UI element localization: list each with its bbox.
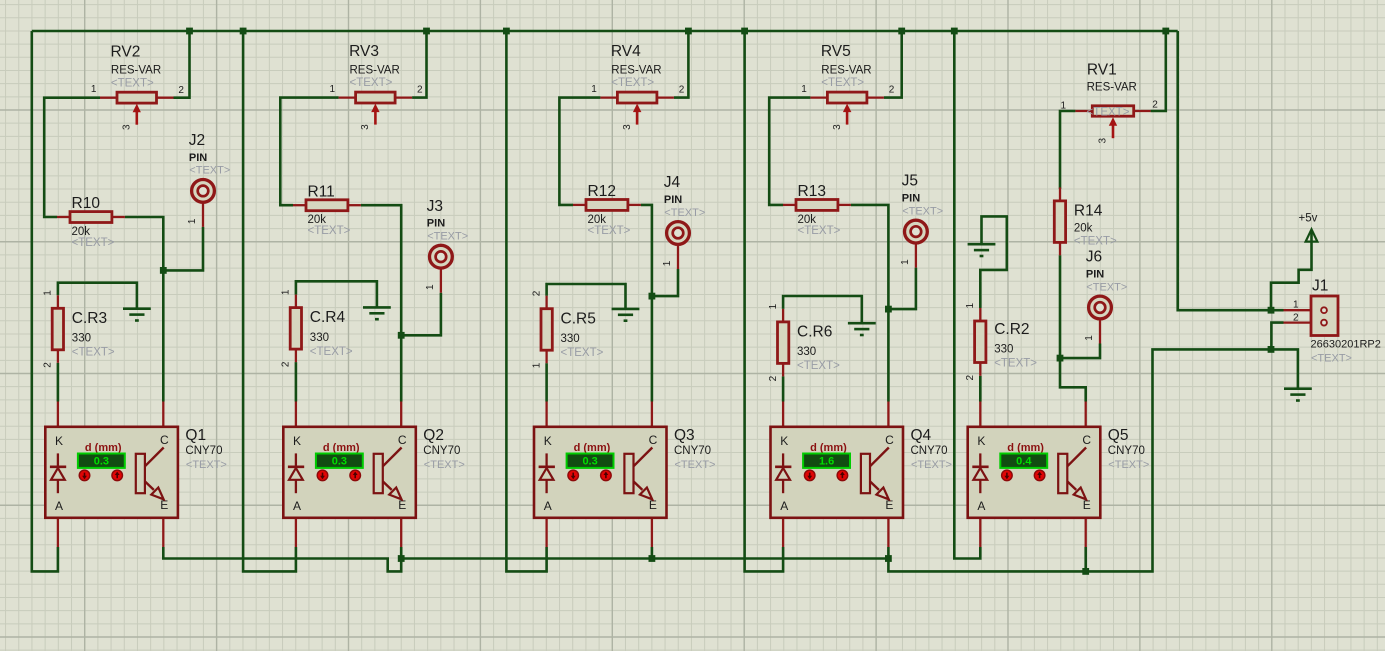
svg-text:RES-VAR: RES-VAR [350, 65, 400, 77]
svg-text:3: 3 [1098, 137, 1109, 143]
svg-text:<TEXT>: <TEXT> [186, 459, 227, 471]
svg-text:1: 1 [801, 84, 807, 95]
svg-text:330: 330 [994, 344, 1013, 356]
svg-text:d (mm): d (mm) [323, 442, 360, 454]
svg-text:Q5: Q5 [1108, 427, 1129, 444]
svg-text:2: 2 [768, 375, 779, 381]
svg-text:<TEXT>: <TEXT> [1311, 353, 1352, 365]
svg-text:330: 330 [797, 346, 816, 358]
svg-text:d (mm): d (mm) [85, 442, 122, 454]
svg-text:1: 1 [91, 84, 97, 95]
svg-text:PIN: PIN [664, 194, 682, 206]
svg-text:3: 3 [622, 124, 633, 130]
svg-text:2: 2 [417, 85, 423, 96]
svg-text:K: K [977, 434, 985, 448]
svg-text:R12: R12 [588, 183, 616, 200]
svg-text:CNY70: CNY70 [674, 445, 711, 457]
svg-text:1: 1 [1293, 300, 1299, 311]
svg-text:Q3: Q3 [674, 427, 695, 444]
svg-text:3: 3 [360, 124, 371, 130]
svg-text:PIN: PIN [1086, 268, 1104, 280]
svg-text:<TEXT>: <TEXT> [902, 205, 943, 217]
svg-text:0.3: 0.3 [332, 456, 347, 468]
svg-text:RV5: RV5 [821, 43, 851, 60]
svg-text:2: 2 [965, 374, 976, 380]
svg-text:2: 2 [43, 362, 54, 368]
svg-text:RES-VAR: RES-VAR [821, 65, 871, 77]
svg-text:K: K [293, 434, 301, 448]
svg-text:1: 1 [662, 260, 673, 266]
svg-text:RES-VAR: RES-VAR [611, 65, 661, 77]
svg-text:<TEXT>: <TEXT> [798, 225, 841, 237]
svg-text:R10: R10 [72, 195, 101, 212]
svg-text:C.R6: C.R6 [797, 324, 832, 341]
svg-text:d (mm): d (mm) [574, 442, 611, 454]
svg-text:<TEXT>: <TEXT> [561, 347, 604, 359]
svg-text:R11: R11 [308, 183, 335, 200]
svg-text:1: 1 [1084, 335, 1095, 341]
svg-text:A: A [977, 499, 985, 513]
svg-text:<TEXT>: <TEXT> [189, 165, 230, 177]
svg-text:<TEXT>: <TEXT> [797, 360, 840, 372]
svg-text:2: 2 [889, 85, 895, 96]
svg-text:2: 2 [178, 85, 184, 96]
svg-text:<TEXT>: <TEXT> [1086, 281, 1127, 293]
svg-text:<TEXT>: <TEXT> [424, 459, 465, 471]
svg-text:K: K [544, 434, 552, 448]
svg-text:<TEXT>: <TEXT> [611, 77, 654, 89]
svg-text:A: A [544, 499, 552, 513]
svg-text:0.3: 0.3 [582, 456, 597, 468]
svg-text:0.3: 0.3 [94, 456, 109, 468]
svg-text:1: 1 [281, 289, 292, 295]
svg-text:J6: J6 [1086, 249, 1102, 266]
svg-text:C: C [160, 433, 169, 447]
svg-text:J3: J3 [427, 198, 443, 215]
svg-text:RV2: RV2 [111, 43, 141, 60]
svg-text:<TEXT>: <TEXT> [821, 77, 864, 89]
svg-text:C.R2: C.R2 [994, 321, 1029, 338]
svg-text:3: 3 [121, 124, 132, 130]
svg-text:C.R5: C.R5 [561, 310, 596, 327]
svg-text:K: K [55, 434, 63, 448]
svg-text:A: A [293, 499, 301, 513]
svg-text:2: 2 [679, 85, 685, 96]
svg-text:CNY70: CNY70 [423, 445, 460, 457]
svg-text:C: C [1082, 433, 1091, 447]
svg-text:Q1: Q1 [185, 427, 206, 444]
svg-text:R13: R13 [798, 183, 826, 200]
svg-text:330: 330 [72, 333, 91, 345]
svg-text:3: 3 [832, 124, 843, 130]
svg-text:<TEXT>: <TEXT> [427, 231, 468, 243]
svg-text:<TEXT>: <TEXT> [1087, 106, 1130, 118]
svg-text:<TEXT>: <TEXT> [1108, 459, 1149, 471]
svg-text:K: K [780, 434, 788, 448]
svg-text:Q2: Q2 [423, 427, 444, 444]
svg-text:1: 1 [531, 362, 542, 368]
svg-text:2: 2 [1293, 313, 1299, 324]
svg-text:1.6: 1.6 [819, 456, 834, 468]
svg-text:1: 1 [591, 84, 597, 95]
svg-text:RV3: RV3 [349, 43, 379, 60]
svg-text:C.R4: C.R4 [310, 309, 346, 326]
svg-text:A: A [780, 499, 788, 513]
svg-text:1: 1 [43, 290, 54, 296]
svg-text:1: 1 [329, 84, 335, 95]
svg-text:CNY70: CNY70 [185, 445, 222, 457]
svg-text:<TEXT>: <TEXT> [1074, 236, 1117, 248]
svg-text:C: C [885, 433, 894, 447]
svg-text:2: 2 [531, 290, 542, 296]
svg-text:<TEXT>: <TEXT> [664, 207, 705, 219]
svg-text:<TEXT>: <TEXT> [308, 225, 351, 237]
svg-text:C: C [649, 433, 658, 447]
svg-text:d (mm): d (mm) [1007, 442, 1044, 454]
svg-text:CNY70: CNY70 [1108, 445, 1145, 457]
svg-text:26630201RP2: 26630201RP2 [1311, 339, 1381, 351]
svg-text:<TEXT>: <TEXT> [675, 459, 716, 471]
svg-text:1: 1 [900, 259, 911, 265]
svg-text:RV1: RV1 [1087, 62, 1117, 79]
svg-text:C.R3: C.R3 [72, 310, 107, 327]
svg-text:1: 1 [187, 218, 198, 224]
svg-text:RV4: RV4 [611, 43, 641, 60]
svg-text:R14: R14 [1074, 203, 1103, 220]
svg-text:C: C [398, 433, 407, 447]
svg-text:<TEXT>: <TEXT> [72, 347, 115, 359]
svg-text:PIN: PIN [427, 218, 445, 230]
svg-text:J2: J2 [189, 132, 205, 149]
svg-text:RES-VAR: RES-VAR [111, 65, 161, 77]
svg-text:1: 1 [768, 303, 779, 309]
svg-text:RES-VAR: RES-VAR [1087, 81, 1137, 93]
svg-text:PIN: PIN [189, 152, 207, 164]
svg-text:Q4: Q4 [911, 427, 932, 444]
svg-text:20k: 20k [1074, 223, 1093, 235]
svg-text:<TEXT>: <TEXT> [588, 225, 631, 237]
svg-text:0.4: 0.4 [1016, 456, 1032, 468]
svg-text:<TEXT>: <TEXT> [111, 77, 154, 89]
svg-text:J1: J1 [1312, 278, 1328, 295]
svg-text:2: 2 [1152, 100, 1158, 111]
svg-text:2: 2 [281, 361, 292, 367]
svg-text:<TEXT>: <TEXT> [911, 459, 952, 471]
svg-text:<TEXT>: <TEXT> [72, 237, 115, 249]
svg-text:1: 1 [425, 284, 436, 290]
svg-text:<TEXT>: <TEXT> [310, 346, 353, 358]
svg-text:+5v: +5v [1299, 212, 1318, 224]
svg-text:J4: J4 [664, 174, 681, 191]
svg-text:<TEXT>: <TEXT> [994, 358, 1037, 370]
svg-text:330: 330 [561, 333, 580, 345]
svg-text:330: 330 [310, 332, 329, 344]
svg-text:1: 1 [965, 302, 976, 308]
svg-text:A: A [55, 499, 63, 513]
svg-text:PIN: PIN [902, 193, 920, 205]
svg-text:1: 1 [1061, 101, 1067, 112]
svg-text:d (mm): d (mm) [810, 442, 847, 454]
svg-text:<TEXT>: <TEXT> [350, 77, 393, 89]
svg-text:CNY70: CNY70 [911, 445, 948, 457]
svg-text:J5: J5 [902, 173, 918, 190]
